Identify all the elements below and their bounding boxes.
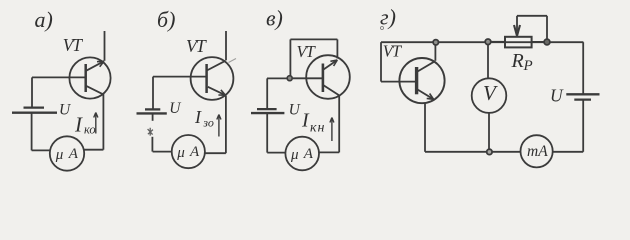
svg-text:μ: μ bbox=[176, 145, 185, 161]
svg-text:в): в) bbox=[266, 6, 283, 31]
svg-text:U: U bbox=[550, 85, 564, 105]
svg-text:U: U bbox=[169, 100, 182, 117]
svg-text:VT: VT bbox=[297, 42, 317, 61]
svg-text:VT: VT bbox=[63, 35, 83, 55]
svg-text:I: I bbox=[301, 110, 310, 132]
svg-text:ко: ко bbox=[84, 123, 96, 137]
svg-text:mА: mА bbox=[527, 143, 548, 160]
svg-text:А: А bbox=[68, 146, 79, 162]
svg-text:зо: зо bbox=[202, 115, 214, 129]
svg-text:А: А bbox=[189, 144, 200, 160]
svg-text:б): б) bbox=[157, 7, 175, 32]
svg-text:I: I bbox=[194, 107, 202, 127]
svg-text:VT: VT bbox=[383, 41, 403, 60]
svg-text:кн: кн bbox=[310, 121, 326, 136]
svg-text:Р: Р bbox=[523, 58, 533, 74]
svg-text:V: V bbox=[483, 81, 498, 105]
svg-text:А: А bbox=[303, 146, 314, 162]
svg-text:μ: μ bbox=[290, 147, 299, 163]
svg-text:R: R bbox=[511, 50, 524, 72]
svg-text:μ: μ bbox=[55, 147, 64, 163]
svg-text:U: U bbox=[289, 102, 302, 119]
svg-text:I: I bbox=[74, 113, 83, 137]
svg-text:VT: VT bbox=[186, 36, 208, 56]
svg-text:U: U bbox=[59, 102, 72, 119]
svg-text:а): а) bbox=[35, 7, 53, 32]
svg-text:г): г) bbox=[380, 4, 396, 29]
